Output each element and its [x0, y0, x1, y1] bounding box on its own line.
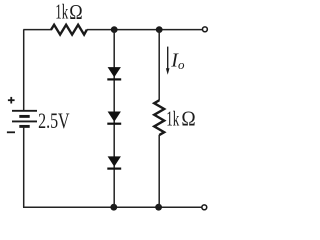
svg-text:1k: 1k	[166, 106, 179, 130]
resistor R1 1k ohm (top, zigzag)	[51, 25, 87, 35]
wire bottom horizontal	[23, 206, 202, 208]
wire R2 branch upper vertical	[158, 30, 160, 101]
polarity label minus (-)	[7, 131, 15, 133]
diode D3 (bottom) triangle	[108, 156, 121, 166]
svg-text:Ω: Ω	[181, 107, 195, 131]
battery V1: short thick plate 2 (negative)	[19, 125, 29, 128]
resistor R2 1k ohm (right, vertical zigzag)	[154, 100, 164, 135]
node junction dot: top of diode branch	[111, 26, 118, 33]
wire top-left horizontal segment (source to R1)	[23, 29, 52, 31]
wire battery negative lead (left vertical lower)	[23, 126, 25, 207]
wire R2 branch lower vertical	[158, 135, 160, 207]
wire top from R1 to output terminal	[87, 29, 203, 31]
battery V1: short thick plate 1	[19, 115, 29, 118]
svg-text:1k: 1k	[55, 0, 68, 24]
diode D1 cathode bar	[107, 78, 121, 80]
svg-text:2.5V: 2.5V	[38, 108, 70, 133]
wire left vertical (battery positive lead)	[23, 30, 25, 111]
diode D3 cathode bar	[107, 168, 121, 170]
terminal: top-right open circle	[202, 27, 207, 32]
svg-text:Ω: Ω	[69, 0, 82, 24]
node junction dot: bottom of R2 branch	[155, 204, 162, 211]
battery V1: long plate 2	[12, 120, 37, 122]
diode D2 cathode bar	[107, 123, 121, 125]
node junction dot: top of R2 branch	[156, 26, 163, 33]
node junction dot: bottom of diode branch	[110, 204, 117, 211]
current arrow Io (head)	[166, 68, 170, 74]
wire diode branch vertical	[113, 30, 115, 208]
terminal: bottom-right open circle	[202, 205, 207, 210]
current arrow Io (shaft)	[167, 47, 169, 70]
diode D2 (middle) triangle	[108, 112, 121, 122]
polarity label plus (+)	[8, 99, 15, 101]
diode D1 (top) triangle	[108, 67, 121, 77]
battery V1 2.5V: long plate 1 (positive)	[12, 110, 37, 112]
